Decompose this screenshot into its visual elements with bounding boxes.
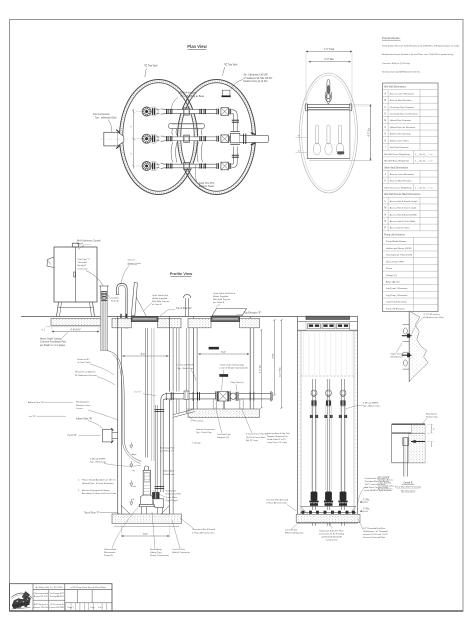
svg-text:Access Hatch Stored Length: Access Hatch Stored Length [390, 200, 419, 203]
svg-text:14'-7″ Min: 14'-7″ Min [279, 366, 281, 376]
svg-text:Detail B: Detail B [404, 481, 413, 484]
svg-text:Lever & Weight Operated (3): Lever & Weight Operated (3) [220, 367, 248, 370]
svg-text:Access Hatch Offset: Access Hatch Offset [390, 227, 410, 230]
valve vault open lid [212, 309, 247, 316]
wet well floor [112, 514, 182, 524]
svg-text:J: J [385, 174, 386, 176]
svg-text:6'-0″: 6'-0″ [143, 534, 148, 536]
svg-text:Long Conn. 25' Long: Long Conn. 25' Long [267, 442, 288, 444]
svg-text:4 Mil a/g HMPE: 4 Mil a/g HMPE [363, 403, 379, 405]
wet well open hatch lid [131, 283, 137, 316]
svg-text:Valve Vault Dimensions: Valve Vault Dimensions [384, 166, 409, 169]
svg-text:Field Trim PVC: Field Trim PVC [199, 182, 215, 185]
wet well bottom dim [122, 535, 170, 537]
svg-text:(To) Incorporated: (To) Incorporated [34, 592, 48, 595]
svg-text:At Steel Frames: At Steel Frames [378, 488, 393, 491]
svg-text:Mounting Detail: Mounting Detail [401, 489, 416, 492]
svg-text:4'-6″ Dia: 4'-6″ Dia [259, 364, 261, 373]
svg-text:Panel ______: Panel ______ [77, 244, 92, 246]
svg-text:Discharge Pipe: Discharge Pipe [160, 446, 176, 449]
plug valve (profile) [230, 393, 236, 399]
svg-text:Base to Max Elevation: Base to Max Elevation [390, 180, 413, 183]
svg-text:Access RE 7522: Access RE 7522 [34, 595, 48, 598]
svg-text:Ground Connection: Ground Connection [196, 428, 216, 431]
svg-text:Bottom Inlet Opening: Bottom Inlet Opening [390, 133, 411, 136]
svg-text:Access Hatch Clear Width: Access Hatch Clear Width [390, 220, 416, 223]
svg-text:According To State and Local C: According To State and Local Code [82, 492, 117, 495]
svg-text:Pump Off Elevation: Pump Off Elevation [386, 307, 406, 310]
svg-text:Influent Pipe ″B″: Influent Pipe ″B″ [76, 418, 92, 421]
svg-text:Break Away: Break Away [150, 548, 162, 551]
svg-text:Cast In Place: Cast In Place [172, 548, 186, 551]
hatch small dims [296, 137, 307, 139]
svg-text:Plan View: Plan View [187, 44, 207, 49]
svg-text:Lead: Lead [132, 486, 136, 488]
discharge pipe vertical [154, 405, 156, 492]
ground line [21, 316, 298, 318]
svg-text:Ballast Amt: Ballast Amt [163, 470, 174, 473]
svg-text:Wet Well Cover Weight/ring: Wet Well Cover Weight/ring [384, 153, 410, 156]
svg-text:Valve Vault Cover Weight/ring: Valve Vault Cover Weight/ring [384, 186, 412, 189]
vent (plan) [222, 90, 230, 96]
svg-text:Wet Well Access Hatch Dimensio: Wet Well Access Hatch Dimensions [384, 193, 421, 196]
force main (profile) [239, 393, 271, 395]
svg-text:A10 Play (pcs) at: A10 Play (pcs) at [34, 603, 49, 606]
svg-text:Elastomeric: Elastomeric [426, 412, 438, 415]
svg-text:in Place All Connectors: in Place All Connectors [192, 531, 215, 534]
svg-text:Plummets w/ Mnimal: Plummets w/ Mnimal [75, 371, 96, 374]
vault weight bars [209, 347, 219, 349]
svg-text:Horse Power (HP): Horse Power (HP) [386, 260, 404, 263]
svg-text:O: O [384, 221, 386, 223]
svg-text:& Cast Outlet: & Cast Outlet [78, 361, 91, 364]
svg-text:and Fitting ″G″: and Fitting ″G″ [160, 450, 174, 453]
svg-text:(8) Bayonet # w/ Threaded: (8) Bayonet # w/ Threaded [363, 530, 388, 533]
svg-text:Base to Cover Elevations: Base to Cover Elevations [390, 173, 415, 176]
svg-text:Expansion Bolts Per Plate: Expansion Bolts Per Plate [319, 530, 344, 533]
svg-text:Womens Liner: Womens Liner [76, 404, 90, 407]
svg-text:Pump Model Number: Pump Model Number [386, 240, 407, 243]
breakaway fitting [152, 492, 155, 498]
svg-text:Precast Notes:: Precast Notes: [382, 36, 401, 40]
svg-text:Submersible: Submersible [104, 548, 117, 551]
svg-text:Total Dynamic Head (TDH): Total Dynamic Head (TDH) [386, 254, 412, 257]
svg-text:as Door B: as Door B [152, 304, 162, 306]
svg-text:Access Hatch Around Width: Access Hatch Around Width [390, 213, 418, 216]
svg-text:Top Elevation ″E″: Top Elevation ″E″ [244, 312, 261, 315]
svg-text:Phase: Phase [386, 268, 393, 270]
float switches [130, 445, 133, 448]
svg-text:Upland Pipe Diameter: Upland Pipe Diameter [390, 119, 412, 122]
svg-text:Connection To Be Provided: Connection To Be Provided [319, 533, 345, 536]
svg-text:Discharge Pipe Diameter: Discharge Pipe Diameter [390, 106, 415, 109]
svg-text:(4)-20 at Force Main: (4)-20 at Force Main [246, 436, 266, 439]
pipe supports [213, 399, 216, 409]
submersible pump [145, 466, 149, 470]
svg-text:With Split Top pan: With Split Top pan [213, 298, 231, 301]
svg-text:Wet Well Base Weight/ring: Wet Well Base Weight/ring [384, 160, 409, 163]
wet well top slab [112, 318, 131, 328]
svg-text:Amps (A) ratio: Amps (A) ratio [386, 281, 401, 284]
svg-text:and Rails At Needs All: and Rails At Needs All [321, 536, 342, 539]
svg-text:Pump Station Structure To Be M: Pump Station Structure To Be Manufacture… [382, 44, 460, 47]
svg-text:Split Self Insertion: Split Self Insertion [178, 92, 197, 95]
control panel [54, 247, 97, 302]
svg-text:℃ This Well: ℃ This Well [144, 64, 158, 67]
section wall dots [298, 334, 300, 520]
svg-text:6″: 6″ [298, 150, 300, 152]
svg-text:Force Main Slab Penetration: Force Main Slab Penetration [395, 486, 422, 489]
svg-text:Concrete: 4000 psi @ 28 Days: Concrete: 4000 psi @ 28 Days [382, 62, 410, 65]
svg-text:1/2″ Threaded Rod Size: 1/2″ Threaded Rod Size [363, 527, 386, 530]
force main (plan) [240, 136, 268, 143]
svg-text:Inv ″C″: Inv ″C″ [135, 392, 142, 394]
wet well 2 ring (plan) [178, 80, 256, 195]
svg-text:Voltage (V): Voltage (V) [386, 274, 397, 277]
wet well vent pipe [117, 283, 128, 328]
svg-text:Balance Stand: Balance Stand [199, 185, 215, 188]
influent pipe (profile) [103, 429, 112, 442]
svg-text:Conduit: Conduit [111, 296, 119, 299]
wet well interior dim [123, 355, 169, 357]
svg-text:Intermediate Guide Rail: Intermediate Guide Rail [267, 432, 290, 435]
svg-text:3″: 3″ [433, 429, 435, 431]
hatch plan precast ring [300, 73, 358, 193]
pump cables [107, 351, 113, 353]
wall bracket concrete [409, 311, 428, 382]
wall bracket 2 [403, 351, 410, 353]
svg-text:Pump (2): Pump (2) [104, 555, 113, 557]
svg-text:W- Ballasted Concrete: W- Ballasted Concrete [75, 374, 98, 377]
svg-text:w/ Inverted Collar: w/ Inverted Collar [378, 485, 394, 488]
svg-text:id PS Pump Flush System Plans/: id PS Pump Flush System Plans/Notes [71, 586, 106, 589]
svg-text:per Detail B: per Detail B [213, 301, 225, 304]
svg-text:With Split Top pan: With Split Top pan [152, 300, 170, 303]
svg-text:Photopolymer: Photopolymer [76, 401, 90, 404]
svg-text:Upper Length: Upper Length [391, 352, 405, 355]
svg-text:Holder Supplied: Holder Supplied [152, 298, 168, 300]
title block frame [10, 584, 113, 611]
svg-text:Lag Pump 2 Elevation: Lag Pump 2 Elevation [386, 287, 408, 290]
svg-text:6'-0″ Dia: 6'-0″ Dia [324, 58, 334, 61]
vault floor [188, 409, 260, 417]
pump base legs [141, 507, 143, 514]
hatch plan dims [306, 51, 352, 53]
valve vault section box [298, 317, 358, 524]
svg-text:2″ Min: 2″ Min [363, 499, 370, 501]
concrete pad [51, 318, 101, 325]
svg-text:6'-0″: 6'-0″ [141, 354, 146, 356]
svg-text:Floats Should Avoided Con ″A″: Floats Should Avoided Con ″A″ On [82, 479, 116, 482]
manifold header (plan) [232, 110, 238, 131]
svg-text:Open Guide Rail: Open Guide Rail [152, 295, 168, 297]
svg-text:TOS lip off: TOS lip off [166, 491, 177, 493]
title block logo [11, 593, 32, 597]
svg-text:Gallons per Minute (GPM): Gallons per Minute (GPM) [386, 247, 412, 250]
title block grid [32, 584, 34, 611]
section hatch top bar [306, 316, 350, 319]
svg-text:Base to Inlet Elevation: Base to Inlet Elevation [390, 99, 413, 102]
pump trains (plan) [142, 107, 231, 171]
svg-text:Typ - Weld Caps: Typ - Weld Caps [177, 368, 194, 370]
svg-text:Top of Riser ″E″: Top of Riser ″E″ [176, 307, 192, 310]
check valve (profile) [215, 391, 217, 401]
detail b pipe [403, 438, 405, 477]
svg-text:8″ TK SS anchor: 8″ TK SS anchor [424, 313, 440, 316]
cross fitting (plan) [230, 133, 239, 142]
svg-text:9' Min: 9' Min [272, 352, 274, 359]
svg-text:Top of Floor ″F″: Top of Floor ″F″ [84, 511, 100, 514]
svg-text:in Place All Connectors: in Place All Connectors [266, 502, 287, 505]
svg-text:Wastewater: Wastewater [104, 551, 116, 554]
svg-text:(Hatch) Connector: (Hatch) Connector [172, 551, 190, 554]
section pipes [309, 379, 318, 510]
svg-text:6″: 6″ [298, 135, 300, 137]
svg-text:Holder Supplied: Holder Supplied [213, 296, 229, 298]
svg-text:Concrete Fillet (Poured): Concrete Fillet (Poured) [266, 499, 288, 502]
vault interior dim [199, 353, 250, 355]
svg-text:Typ - w/Beveled End: Typ - w/Beveled End [95, 117, 117, 119]
svg-text:Wall Bracket: Wall Bracket [391, 356, 404, 359]
svg-text:Concrete Pipe: Concrete Pipe [217, 433, 232, 436]
svg-text:7' Dia typ: 7' Dia typ [192, 442, 202, 445]
svg-text:(2) Anchors per Plug: (2) Anchors per Plug [424, 316, 445, 319]
svg-text:Upland Pipe - R Level Elevatio: Upland Pipe - R Level Elevations [82, 482, 115, 485]
detail b slab [392, 423, 425, 425]
valve vault top slab [188, 318, 211, 328]
svg-text:Manufactured to per Flotation: Manufactured to per Flotation Calc and P… [382, 53, 453, 56]
hatch maker mark [338, 152, 345, 155]
svg-text:Electrical Equipment Fittings: Electrical Equipment Fittings [82, 489, 111, 492]
svg-text:Supports (2): Supports (2) [217, 436, 229, 439]
hatch right dim [370, 105, 372, 161]
svg-text:Leaves 236-2901: Leaves 236-2901 [49, 607, 64, 609]
svg-text:Concrete Fillet (Poured): Concrete Fillet (Poured) [192, 528, 215, 531]
conduit bank [101, 292, 108, 351]
svg-text:w/ Lined 1/2″: w/ Lined 1/2″ [378, 477, 390, 479]
detail b anchor arrow [411, 441, 425, 443]
riser sleeve between structures [176, 328, 178, 413]
svg-text:1″ Sch 40 PVDF: 1″ Sch 40 PVDF [177, 365, 194, 367]
svg-text:Guide Rails 8' to 15': Guide Rails 8' to 15' [267, 438, 287, 441]
section roof band [298, 330, 358, 332]
svg-text:Above Grade Canopy: Above Grade Canopy [40, 337, 63, 340]
svg-text:Guide Plate: Guide Plate [166, 496, 178, 499]
influent pipe (plan) [104, 132, 118, 146]
section corner gussets [301, 507, 309, 515]
svg-text:Plug Valve (t): Plug Valve (t) [231, 381, 244, 384]
svg-text:Threaded: Threaded [78, 261, 88, 264]
svg-text:Poly Pipe ″T″: Poly Pipe ″T″ [78, 259, 91, 261]
pump openings (plan) [313, 125, 320, 155]
svg-text:Alu. Galvanized 36″x36″: Alu. Galvanized 36″x36″ [244, 74, 269, 77]
svg-text:4'-0″ Sq: 4'-0″ Sq [368, 128, 370, 137]
svg-text:(Pump Connection): (Pump Connection) [150, 554, 169, 557]
svg-text:Conn. Bolt Nut: Conn. Bolt Nut [378, 482, 392, 485]
wet well walls [117, 317, 119, 515]
hatch frame (plan) [307, 105, 350, 159]
svg-text:Lag: Lag [132, 470, 135, 472]
svg-text:6 Mil a/g PWRF: 6 Mil a/g PWRF [90, 459, 106, 461]
svg-text:Support Required Per: Support Required Per [267, 435, 288, 438]
svg-text:Access Hatch Clear Length: Access Hatch Clear Length [390, 207, 417, 210]
svg-text:AC Eder (Gls) Co, RT 4750: AC Eder (Gls) Co, RT 4750 [36, 586, 63, 589]
pump spacing dimension (plan) [133, 109, 135, 169]
svg-text:Upland Pipe Inv. Elevation: Upland Pipe Inv. Elevation [390, 126, 416, 129]
svg-text:2″ Min: 2″ Min [363, 508, 370, 510]
section base slab [296, 514, 360, 522]
balance stand (plan) [169, 123, 205, 128]
svg-text:Screen Cover: Screen Cover [128, 262, 142, 265]
svg-text:Reducer MJ: Reducer MJ [78, 358, 90, 361]
svg-text:6'-0″: 6'-0″ [221, 352, 226, 354]
svg-text:Achieve 201-8 04: Achieve 201-8 04 [34, 606, 49, 609]
svg-text:1 of 1: 1 of 1 [98, 607, 103, 609]
wet well hatch frame [131, 317, 158, 322]
svg-text:M: M [384, 208, 386, 210]
svg-text:w/ Stainless Stl Hdw OR 36″: w/ Stainless Stl Hdw OR 36″ [244, 77, 273, 80]
svg-text:Reinforcement per ASTM A-615 G: Reinforcement per ASTM A-615 Gr.60 #4s [382, 71, 420, 74]
svg-text:The Design S RT: The Design S RT [50, 593, 65, 595]
section right dims [361, 500, 371, 502]
section base bars [301, 506, 357, 508]
svg-text:Fitting (Typ): Fitting (Typ) [150, 551, 162, 554]
svg-text:Profile View: Profile View [170, 271, 193, 276]
valve vault walls [193, 317, 195, 410]
svg-text:(Typ) Pumps: (Typ) Pumps [166, 500, 179, 502]
svg-text:Adhere Pipe ″B″: Adhere Pipe ″B″ [28, 401, 44, 404]
svg-text:Pump Unit Numbers: Pump Unit Numbers [384, 233, 406, 236]
svg-text:Vent Pipe Diameter: Vent Pipe Diameter [390, 146, 409, 149]
svg-text:Effort for Antiquariat: Effort for Antiquariat [285, 532, 304, 535]
detail b dims [427, 423, 434, 425]
svg-text:Screws & Unusual Plate: Screws & Unusual Plate [363, 536, 386, 539]
svg-text:Wet Well Dimensions: Wet Well Dimensions [384, 86, 407, 89]
svg-text:per Detail 'xx' on 2 pages: per Detail 'xx' on 2 pages [40, 344, 66, 347]
svg-text:washer & 13 Pa dia 1″x1.5″: washer & 13 Pa dia 1″x1.5″ [363, 533, 388, 536]
section hinges [308, 324, 321, 329]
vault right dims [261, 330, 263, 408]
svg-text:℃ This Well: ℃ This Well [224, 63, 238, 66]
svg-text:G: G [384, 134, 386, 136]
svg-text:Typ - Mounting as Base: Typ - Mounting as Base [180, 95, 205, 98]
svg-text:4' Dia at Force Flg: Bot: 4' Dia at Force Flg: Bot [246, 433, 268, 436]
valve vault hatch frame [211, 317, 240, 322]
svg-text:Lag Pump 1 Elevation: Lag Pump 1 Elevation [386, 294, 408, 297]
svg-text:Covers: Covers [76, 407, 84, 410]
lifting bail (plan) [327, 80, 330, 102]
svg-text:Page 1: Page 1 [68, 607, 74, 609]
wall bracket 1 [403, 323, 410, 325]
svg-text:Inv In ″D″: Inv In ″D″ [68, 435, 78, 437]
svg-text:Bend(s)²: Bend(s)² [78, 264, 87, 267]
svg-text:Vent w/: Vent w/ [128, 259, 136, 262]
svg-text:Open Guide Rail Hatch: Open Guide Rail Hatch [213, 292, 236, 295]
discharge elbow [161, 394, 167, 401]
svg-text:6″: 6″ [42, 330, 44, 332]
svg-text:Concrete Foundation Pad: Concrete Foundation Pad [40, 341, 66, 344]
svg-text:Bottom Liner Offset: Bottom Liner Offset [390, 139, 409, 142]
svg-text:Dwg: Dwg [91, 607, 95, 609]
svg-text:Rod Size Access: Rod Size Access [378, 479, 393, 482]
dimension table [383, 83, 439, 311]
vault discharge pipe [167, 392, 216, 399]
panel legs [57, 302, 59, 317]
svg-text:Typ - Weld Caps: Typ - Weld Caps [90, 462, 107, 464]
svg-text:Base to Cover Elevations: Base to Cover Elevations [390, 92, 415, 95]
svg-text:Sealant Typ: Sealant Typ [426, 416, 438, 419]
svg-text:4'-0″x4'-0″: 4'-0″x4'-0″ [70, 329, 80, 331]
svg-text:Typ - Drain Pipe: Typ - Drain Pipe [196, 431, 212, 434]
svg-text:7'-0″ Total: 7'-0″ Total [324, 48, 335, 51]
svg-text:Training AB 8971: Training AB 8971 [50, 595, 64, 598]
svg-text:(T) To convey St: (T) To convey St [50, 603, 64, 606]
svg-text:Bel 25' Long: Bel 25' Long [246, 440, 259, 442]
svg-text:Alarm: Alarm [132, 453, 137, 456]
svg-text:Inv ″B″: Inv ″B″ [29, 416, 36, 418]
svg-text:Components: Components [326, 539, 338, 542]
svg-text:Discharge Pipe Inv Elevation: Discharge Pipe Inv Elevation [390, 113, 419, 116]
svg-text:Lead Pump Elevation: Lead Pump Elevation [386, 301, 408, 304]
svg-text:Check Valve Swing (Typ): Check Valve Swing (Typ) [220, 364, 245, 366]
svg-text:Inlet Connection: Inlet Connection [93, 113, 111, 116]
svg-text:Stub Up: Stub Up [111, 300, 120, 303]
svg-text:Galvanized Ftty: Galvanized Ftty [166, 493, 182, 496]
svg-text:Medium Duty @,10 Pcs: Medium Duty @,10 Pcs [244, 80, 269, 83]
svg-text:Connector: Connector [78, 267, 88, 270]
svg-text:Typ - Above Legs: Typ - Above Legs [363, 405, 381, 408]
valve vault vent [185, 298, 187, 317]
wet well 1 ring (plan) [120, 80, 198, 195]
svg-text:W×6 Aluminum Control: W×6 Aluminum Control [77, 239, 101, 242]
guide rails [144, 328, 146, 458]
svg-text:of Bolts mm: of Bolts mm [163, 473, 175, 476]
pad dimension [52, 331, 99, 333]
